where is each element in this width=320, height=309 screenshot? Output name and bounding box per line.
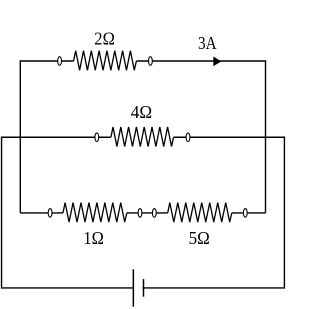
svg-text:1Ω: 1Ω <box>83 228 103 248</box>
battery V1: long positive plate <box>132 269 134 306</box>
terminal: R3 left lead ellipse <box>48 209 52 218</box>
wire: middle branch right segment, outer-right vertical, bottom-right wire to battery <box>142 137 284 288</box>
wire: third branch right segment <box>232 212 266 214</box>
resistor R4 5ohm zigzag <box>168 203 232 223</box>
resistor R2 4ohm zigzag <box>111 127 174 147</box>
wire: third branch middle segment between R3 and R4 <box>127 212 168 214</box>
terminal: R2 left lead ellipse <box>95 133 99 142</box>
wire: top-right segment and inner-right vertical (node B down to node D) <box>136 61 265 213</box>
svg-text:5Ω: 5Ω <box>189 228 210 248</box>
terminal: R4 right lead ellipse <box>243 209 247 218</box>
svg-text:3A: 3A <box>198 33 217 53</box>
terminal: R1 left lead ellipse <box>58 57 62 66</box>
svg-text:4Ω: 4Ω <box>131 102 152 122</box>
svg-text:2Ω: 2Ω <box>94 28 115 48</box>
wire: middle branch left segment, outer-left vertical, bottom-left wire to battery <box>2 137 134 288</box>
wire: third branch left segment <box>20 212 63 214</box>
terminal: R1 right lead ellipse <box>149 57 153 66</box>
battery V1: short negative plate <box>143 279 145 297</box>
current arrow 3A (pointing right) <box>213 57 221 67</box>
wire: top-left segment and inner-left vertical (node A down to node C) <box>20 61 73 213</box>
resistor R1 2ohm zigzag <box>74 51 137 70</box>
resistor R3 1ohm zigzag <box>63 203 127 223</box>
terminal: R2 right lead ellipse <box>186 133 190 142</box>
terminal: R4 left lead ellipse <box>152 209 156 218</box>
terminal: R3 right lead ellipse <box>138 209 142 218</box>
